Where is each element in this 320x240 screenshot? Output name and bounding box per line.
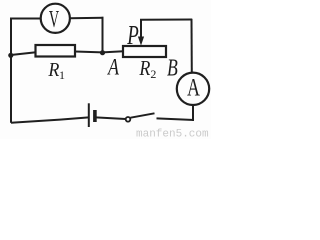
svg-text:manfen5.com: manfen5.com: [136, 129, 209, 140]
wire voltmeter to top-right corner of parallel section: [70, 17, 104, 19]
svg-text:1: 1: [59, 68, 65, 82]
label P: [126, 21, 138, 51]
wire slider to top-right corner: [140, 19, 192, 21]
rheostat R2 body: [123, 46, 166, 57]
wire switch to battery: [96, 117, 126, 119]
wire top-left to voltmeter: [10, 18, 41, 20]
svg-text:R: R: [47, 59, 59, 81]
slider arrow of R2: [138, 20, 144, 46]
svg-text:V: V: [49, 7, 60, 33]
wire left vertical: [10, 19, 12, 123]
svg-text:B: B: [167, 55, 178, 82]
battery cell: [89, 103, 95, 127]
wire ammeter down to bottom-right corner: [192, 105, 194, 121]
svg-text:A: A: [106, 54, 119, 79]
svg-text:P: P: [126, 21, 138, 51]
resistor R1: [36, 45, 76, 57]
wire left junction to R1: [11, 52, 36, 55]
node left junction: [8, 53, 13, 58]
wire R1 to right junction: [75, 51, 103, 54]
wire right vertical to ammeter: [191, 19, 193, 73]
svg-text:A: A: [187, 73, 200, 102]
switch (open): [126, 113, 155, 121]
ammeter A: [177, 73, 209, 105]
svg-text:R: R: [139, 56, 151, 80]
node A junction: [100, 50, 105, 55]
wire battery to bottom-left corner: [11, 117, 89, 122]
svg-text:2: 2: [150, 67, 156, 81]
wire bottom right to switch: [157, 118, 195, 120]
wire vertical down to node A junction: [102, 17, 104, 53]
wire node A to rheostat R2: [103, 51, 124, 52]
voltmeter V: [41, 4, 70, 33]
